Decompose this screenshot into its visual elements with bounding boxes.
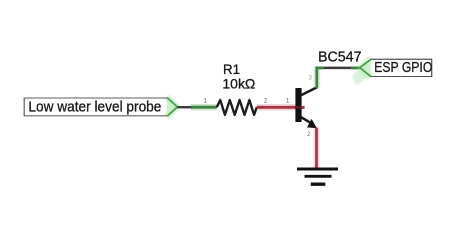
svg-text:10kΩ: 10kΩ (222, 76, 255, 92)
svg-text:BC547: BC547 (318, 48, 362, 65)
svg-text:ESP GPIO: ESP GPIO (374, 59, 432, 76)
svg-text:Low water level probe: Low water level probe (28, 99, 161, 116)
